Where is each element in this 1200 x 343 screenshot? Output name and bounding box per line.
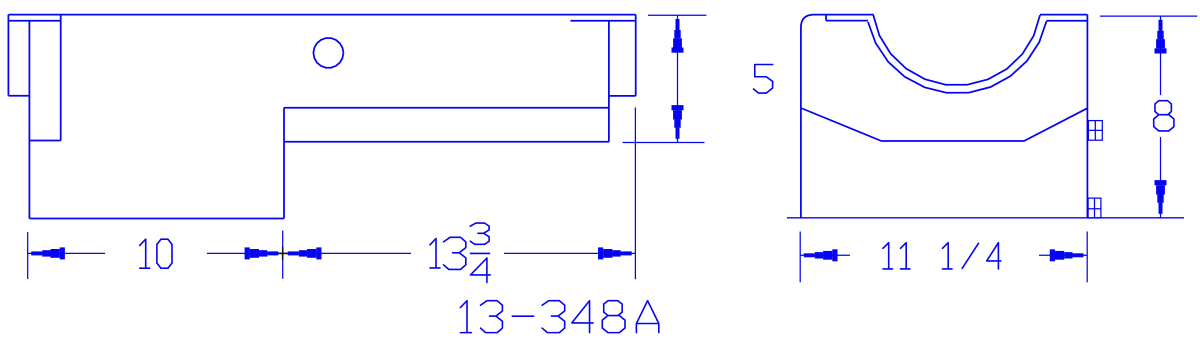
dim line 11 1/4 — [800, 254, 850, 256]
dim text 13 3/4 — [430, 239, 440, 268]
left view: step vertical — [283, 108, 285, 219]
left view: main left edge — [28, 21, 30, 219]
right view: top edge left — [814, 14, 874, 16]
left view: hole circle — [313, 38, 343, 68]
left view: upper inner line right — [571, 20, 636, 22]
right view: top left fillet — [801, 15, 814, 28]
dim 8: dimension line lower — [1160, 137, 1162, 218]
right view: lower set screw — [1088, 198, 1101, 218]
dim extension line between 10 and 13 3/4 — [282, 231, 284, 279]
right view: groove profile — [801, 108, 1088, 141]
left view: outer left edge — [7, 15, 9, 96]
left view: inner left vertical — [60, 15, 62, 141]
left view: upper inner line left — [8, 20, 60, 22]
dim 5 bottom arrowhead — [672, 105, 684, 139]
dim 11 1/4 right arrowhead — [1050, 249, 1084, 261]
left view: top edge — [8, 14, 635, 16]
left view: left tab bottom — [8, 95, 29, 97]
dim extension line left of 10 — [27, 232, 29, 279]
left view: inner left step bottom — [29, 140, 60, 142]
left view: shelf bottom line — [284, 141, 609, 143]
dim text 5 — [754, 65, 773, 94]
right view: right edge — [1086, 15, 1088, 218]
dim text 10 — [140, 239, 150, 268]
dim 10 left arrowhead — [31, 247, 65, 259]
dim line 10 — [28, 252, 105, 254]
left view: shelf top line — [284, 107, 609, 109]
dim 11 1/4: left extension line — [799, 232, 801, 283]
right view: left edge — [800, 28, 802, 219]
dim 13 3/4 left arrowhead — [288, 247, 322, 259]
right view: base line — [787, 217, 1184, 219]
datum cross marker — [277, 247, 290, 260]
left view: inner right vertical — [608, 21, 610, 142]
left view: right tab bottom — [609, 95, 636, 97]
right view: upper set screw — [1088, 121, 1102, 141]
dim 11 1/4: right extension line — [1086, 232, 1088, 283]
right view: step ledge right — [1047, 20, 1088, 22]
right view: bowl inner arc — [873, 15, 1040, 85]
dim line 13 3/4 — [284, 252, 411, 254]
dim extension line right of 13 3/4 — [634, 108, 636, 280]
right view: top edge right — [1040, 14, 1087, 16]
title text 13-348A — [460, 301, 471, 333]
dim 5: bottom extension line — [623, 142, 705, 144]
dim text 11 1/4 — [883, 243, 893, 269]
dim 8: top extension line — [1100, 15, 1197, 17]
right view: bowl outer arc — [868, 21, 1047, 93]
dim text 8 — [1154, 101, 1174, 131]
dim 5: dimension line — [677, 15, 679, 142]
left view: bottom edge — [29, 218, 284, 220]
dim 5: top extension line — [648, 14, 706, 16]
right view: step notch vertical — [825, 15, 827, 21]
dim 8: dimension line upper — [1160, 16, 1162, 95]
dim 8 bottom arrowhead — [1155, 180, 1167, 214]
dim 5 top arrowhead — [672, 19, 684, 53]
dim 10 right arrowhead — [245, 247, 279, 259]
right view: step ledge left — [826, 20, 868, 22]
dim 13 3/4 right arrowhead — [598, 247, 632, 259]
dim 11 1/4 left arrowhead — [804, 249, 838, 261]
left view: outer right edge — [635, 15, 637, 96]
dim 8 top arrowhead — [1155, 20, 1167, 54]
